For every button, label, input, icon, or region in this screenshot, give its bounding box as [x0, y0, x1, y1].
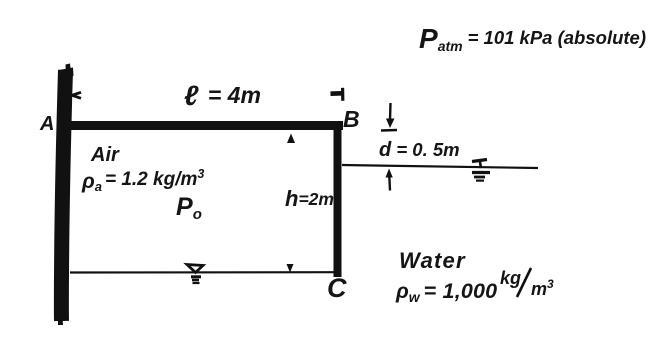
svg-text:h=2m: h=2m	[285, 186, 334, 211]
d dimension up-arrow to water line	[386, 169, 393, 191]
l dimension left tick at wall	[72, 92, 81, 98]
svg-text:B: B	[343, 106, 360, 132]
h dimension arrow (down, on bottom line)	[287, 264, 294, 273]
h dimension arrow (up, under top plate)	[287, 134, 295, 144]
svg-text:A: A	[39, 113, 54, 135]
outside water surface line	[342, 165, 538, 168]
svg-text:C: C	[327, 273, 347, 303]
wall (left vertical support)	[55, 64, 74, 326]
svg-text:Air: Air	[90, 144, 120, 166]
top plate AB	[70, 121, 343, 130]
right plate BC	[334, 123, 342, 277]
bottom air-water interface line	[70, 271, 336, 273]
svg-text:d = 0. 5m: d = 0. 5m	[379, 139, 460, 161]
free-surface symbol (hatch) on outside water line	[472, 160, 490, 181]
svg-text:kg: kg	[500, 268, 521, 288]
free-surface symbol (triangle) on bottom line	[187, 265, 203, 284]
d dimension down-arrow with tick	[381, 103, 397, 131]
svg-text:Water: Water	[399, 248, 466, 273]
l dimension right tick at B	[331, 88, 343, 101]
svg-text:ℓ = 4m: ℓ = 4m	[184, 80, 261, 111]
